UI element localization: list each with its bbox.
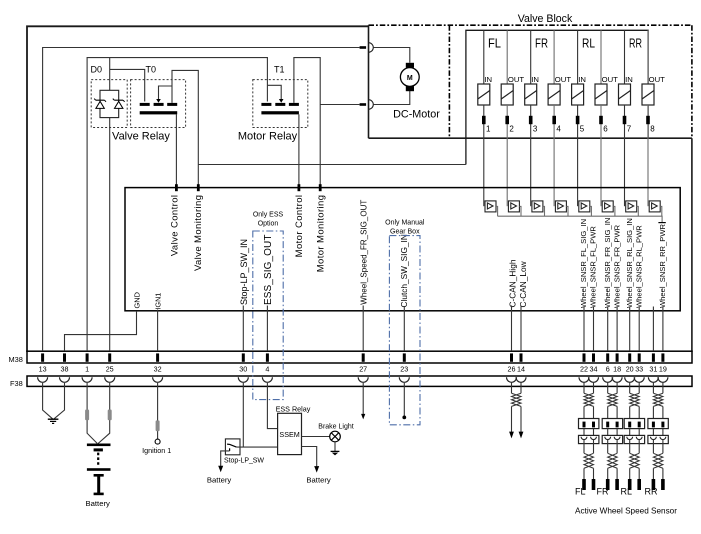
svg-text:IN: IN [531, 75, 539, 84]
suppressor diode block D0 (dashed box) [91, 80, 127, 128]
svg-text:Ignition 1: Ignition 1 [142, 446, 171, 455]
svg-text:Brake Light: Brake Light [318, 424, 353, 431]
svg-text:8: 8 [650, 125, 655, 134]
wire T0 coil to valve control (ECU) [175, 114, 177, 187]
svg-text:Wheel_SNSR_FL_PWR: Wheel_SNSR_FL_PWR [589, 226, 598, 308]
twisted pair RR lower [653, 453, 663, 468]
svg-text:20: 20 [626, 365, 634, 374]
wire T0 right contact / valve monitoring riser [172, 70, 198, 187]
twisted pair RL lower [630, 453, 640, 468]
pin 1 (M38 tick, number, F38 socket) [82, 353, 92, 382]
svg-text:Only Manual: Only Manual [385, 219, 425, 226]
svg-text:38: 38 [61, 365, 69, 374]
driver U8 (valve output stage) [649, 201, 662, 216]
terminal circle Ignition 1 [155, 439, 160, 444]
wire pin13 net: M38 up, across, to motor top terminal [43, 48, 360, 352]
connector tick into motor (top terminal) [360, 46, 367, 49]
valve V2 (OUT) with wire, tick and pin number 2 [501, 30, 524, 206]
wire T0 movable contact to monitoring riser [159, 86, 173, 99]
svg-text:26: 26 [508, 365, 516, 374]
wire lamp to ground [334, 442, 336, 452]
wire column x=584.0 to M38 [583, 307, 585, 352]
svg-text:31: 31 [649, 365, 657, 374]
wire frame left+top (battery feed loop) [27, 26, 369, 352]
driver U5 (valve output stage) [579, 201, 592, 216]
twisted pair FR lower [608, 453, 618, 468]
svg-text:FL: FL [575, 487, 586, 497]
svg-text:6: 6 [603, 125, 608, 134]
svg-text:RL: RL [582, 36, 595, 51]
connector arc motor bottom terminal [369, 100, 374, 110]
pin 13 (M38 tick, number, F38 socket) [38, 353, 48, 382]
svg-text:1: 1 [85, 365, 89, 374]
connector plug RR (male) [648, 419, 668, 429]
wire column x=521.0 to M38 [520, 306, 522, 352]
wire T1 movable contact to left riser [267, 85, 281, 99]
ground G1 [48, 419, 59, 423]
wire RL to lower twist [630, 439, 640, 453]
DC motor M1 [400, 63, 419, 91]
wire motor bottom terminal to monitoring riser [320, 104, 359, 106]
svg-text:OUT: OUT [555, 75, 572, 84]
relay T0 (dashed box) [131, 80, 186, 128]
switch Stop-LP_SW [225, 439, 240, 455]
twisted pair FL lower [584, 453, 594, 468]
valve V3 (IN) with wire, tick and pin number 3 [525, 30, 539, 206]
arrow pin27 [361, 414, 365, 420]
driver U6 (valve output stage) [602, 201, 615, 216]
arrow C-CAN Low [519, 432, 524, 439]
valve block dash-dot right edge [691, 25, 693, 138]
sensor harness FR: wires from F38 [608, 382, 617, 393]
wire column x=617.1 to M38 [616, 307, 618, 352]
valve V8 (OUT) with wire, tick and pin number 8 [642, 30, 665, 206]
svg-text:RL: RL [621, 487, 633, 497]
svg-text:T0: T0 [146, 65, 157, 75]
svg-text:GND: GND [133, 292, 142, 308]
pin 20 (M38 tick, number, F38 socket) [625, 353, 635, 382]
wire column x=662.9 to M38 [662, 307, 664, 352]
wire pin13 to ground [43, 383, 53, 419]
pin 22 (M38 tick, number, F38 socket) [579, 353, 589, 382]
svg-text:7: 7 [627, 125, 632, 134]
svg-text:OUT: OUT [602, 75, 619, 84]
relay T0 contacts [140, 99, 178, 106]
svg-text:Wheel_SNSR_RR_PWR: Wheel_SNSR_RR_PWR [658, 224, 667, 308]
wire column x=157.6 to M38 [157, 310, 159, 352]
svg-text:2: 2 [509, 125, 514, 134]
svg-text:D0: D0 [91, 65, 103, 75]
valve V4 (OUT) with wire, tick and pin number 4 [548, 30, 571, 206]
svg-text:Valve Control: Valve Control [169, 195, 180, 257]
svg-text:Motor Control: Motor Control [294, 195, 305, 258]
zener diode D0a [94, 99, 106, 109]
pin tick at ECU top x=320.2 [319, 184, 322, 191]
svg-text:22: 22 [580, 365, 588, 374]
svg-text:IGN1: IGN1 [154, 293, 163, 310]
twisted pair RR upper [653, 393, 663, 406]
svg-text:IN: IN [625, 75, 633, 84]
twisted pair FR upper [608, 393, 618, 406]
driver U4 (valve output stage) [555, 201, 568, 216]
svg-text:RR: RR [629, 36, 642, 51]
valve block bottom edge [369, 137, 692, 139]
pin 4 (M38 tick, number, F38 socket) [262, 353, 272, 382]
relay T1 coil bar [261, 111, 299, 114]
svg-text:ESS Relay: ESS Relay [276, 404, 311, 413]
pin 19 (M38 tick, number, F38 socket) [658, 353, 668, 382]
valve block inner box [466, 30, 648, 164]
svg-text:Wheel_SNSR_FR_SIG_IN: Wheel_SNSR_FR_SIG_IN [603, 218, 612, 308]
wire RR to lower twist [653, 439, 663, 453]
connector arc motor top terminal [369, 43, 374, 53]
svg-text:34: 34 [590, 365, 598, 374]
sensor terminal bars FL [582, 479, 595, 490]
pin tick at ECU top x=298.9 [298, 184, 301, 191]
bus termination tick [658, 222, 665, 224]
svg-text:Clutch_SW_SIG_IN: Clutch_SW_SIG_IN [399, 234, 409, 307]
motor compartment solid left edge [368, 25, 370, 138]
svg-text:Battery: Battery [306, 475, 331, 484]
svg-text:13: 13 [39, 365, 47, 374]
wire column x=511.5 to M38 [511, 306, 513, 352]
wire column x=653.4 to M38 [652, 307, 654, 352]
pin 27 (M38 tick, number, F38 socket) [358, 353, 368, 382]
option box Only ESS Option (blue dash-dot) [253, 212, 284, 400]
svg-text:23: 23 [400, 365, 408, 374]
svg-text:OUT: OUT [649, 75, 666, 84]
sensor harness FL: wires from F38 [584, 382, 594, 393]
wire D0 junction to T0 left contact [110, 69, 145, 101]
zener diode D0b [113, 99, 125, 109]
connector M38 bar [9, 351, 693, 364]
wire GND to pin 38 [65, 311, 137, 351]
wire RL to sensor terminals [630, 468, 640, 479]
wire motor top terminal to brush [373, 48, 409, 63]
driver U2 (valve output stage) [508, 201, 521, 216]
svg-text:DC-Motor: DC-Motor [393, 109, 440, 121]
svg-text:Wheel_SNSR_RL_PWR: Wheel_SNSR_RL_PWR [634, 225, 643, 308]
svg-text:OUT: OUT [508, 75, 525, 84]
sensor terminal bars FR [606, 479, 619, 490]
pin 23 (M38 tick, number, F38 socket) [399, 353, 409, 382]
svg-text:25: 25 [106, 365, 114, 374]
wire pin38 to ground [54, 383, 65, 419]
wire pin1 to battery [87, 383, 97, 444]
svg-text:Battery: Battery [86, 499, 111, 508]
wire column x=629.7 to M38 [629, 307, 631, 352]
fuse F1 [85, 410, 89, 421]
connector socket RL (female) [624, 435, 644, 443]
dash-dot divider motor/valves [448, 25, 450, 138]
pin 30 (M38 tick, number, F38 socket) [238, 353, 248, 382]
connector plug FL (male) [579, 419, 599, 429]
ground (brake light) [331, 451, 340, 455]
valve V5 (IN) with wire, tick and pin number 5 [572, 30, 586, 206]
wire column x=607.7 to M38 [607, 307, 609, 352]
svg-text:Wheel_SNSR_FL_SIG_IN: Wheel_SNSR_FL_SIG_IN [579, 219, 588, 308]
valve V6 (OUT) with wire, tick and pin number 6 [595, 30, 618, 206]
wire C-CAN pair from F38 [512, 382, 522, 393]
arrow to battery (left) [218, 466, 223, 473]
wire column x=404.3 to M38 [403, 307, 405, 351]
relay module SSEM [278, 413, 302, 454]
wire switch to SSEM [236, 446, 277, 448]
svg-text:27: 27 [359, 365, 367, 374]
wire FL to lower twist [584, 439, 594, 453]
pin 25 (M38 tick, number, F38 socket) [105, 353, 115, 382]
svg-text:1: 1 [486, 125, 491, 134]
wire column x=593.5 to M38 [593, 307, 595, 352]
ECU main box [125, 188, 680, 311]
valve block outer dash-dot border top [369, 24, 692, 26]
wire switch to battery arrow (left) [221, 451, 230, 467]
svg-text:Wheel_Speed_FR_SIG_OUT: Wheel_Speed_FR_SIG_OUT [360, 200, 369, 305]
svg-text:Gear Box: Gear Box [390, 229, 420, 236]
svg-text:14: 14 [517, 365, 525, 374]
svg-text:Motor Monitoring: Motor Monitoring [316, 195, 327, 273]
connector plug RL (male) [624, 419, 644, 429]
svg-text:M: M [407, 75, 413, 82]
pin 33 (M38 tick, number, F38 socket) [634, 353, 644, 382]
svg-text:IN: IN [484, 75, 492, 84]
arrow to battery (right) [314, 466, 319, 473]
wire stubs between connectors FR [608, 429, 617, 436]
connector socket FR (female) [602, 435, 622, 443]
svg-text:Valve Relay: Valve Relay [112, 131, 170, 143]
svg-text:5: 5 [580, 125, 585, 134]
driver U3 (valve output stage) [532, 201, 545, 216]
wire column x=243.3 to M38 [242, 306, 244, 352]
pin 38 (M38 tick, number, F38 socket) [60, 353, 70, 382]
wire stubs between connectors FL [584, 429, 594, 436]
svg-text:Wheel_SNSR_RL_SIG_IN: Wheel_SNSR_RL_SIG_IN [625, 218, 634, 308]
svg-text:6: 6 [606, 365, 610, 374]
wire pin4 down to SSEM [267, 383, 277, 429]
svg-text:Option: Option [258, 221, 279, 228]
wire SSEM to battery arrow (right) [302, 447, 317, 467]
svg-text:4: 4 [556, 125, 561, 134]
connector socket RR (female) [648, 435, 668, 443]
svg-text:Stop-LP_SW_IN: Stop-LP_SW_IN [239, 239, 249, 305]
lamp Brake Light [330, 431, 341, 442]
wire column x=363.2 to M38 [362, 306, 364, 352]
sensor harness RL: wires from F38 [630, 382, 640, 393]
wire FR to lower twist [608, 439, 617, 453]
wire motor bottom terminal to brush [373, 91, 409, 105]
valve V1 (IN) with wire, tick and pin number 1 [478, 30, 492, 206]
svg-text:IN: IN [578, 75, 586, 84]
terminal dot clutch switch [402, 416, 406, 420]
wire pin30 down to switch node [242, 383, 244, 447]
svg-text:Motor Relay: Motor Relay [238, 131, 298, 143]
pin 18 (M38 tick, number, F38 socket) [612, 353, 622, 382]
wire pin32 ignition [157, 383, 159, 439]
driver U1 (valve output stage) [485, 201, 498, 216]
svg-text:ESS_SIG_OUT: ESS_SIG_OUT [263, 234, 274, 305]
wire pin25 to battery [98, 383, 110, 444]
pin tick at ECU top x=176.4 [175, 184, 178, 191]
svg-text:18: 18 [613, 365, 621, 374]
svg-text:FR: FR [597, 487, 609, 497]
svg-text:Stop-LP_SW: Stop-LP_SW [224, 458, 264, 465]
wire RR to connector [653, 406, 663, 418]
svg-text:Active Wheel Speed Sensor: Active Wheel Speed Sensor [575, 507, 677, 516]
wire C-CAN down to arrows [512, 406, 522, 432]
connector F38 bar [10, 376, 692, 388]
svg-text:30: 30 [239, 365, 247, 374]
wire driver output bus [498, 216, 662, 222]
wire pin27 wheel speed out stub [362, 383, 364, 415]
wire RL to connector [630, 406, 640, 418]
battery B1 [87, 444, 111, 496]
twisted pair FL upper [584, 393, 594, 406]
wire frame right edge [691, 138, 693, 352]
svg-text:SSEM: SSEM [279, 430, 299, 439]
twisted pair RL upper [630, 393, 640, 406]
wire T1 coil to motor control (ECU) [298, 114, 300, 187]
wire pin25/D0 net: vertical through D0 down to M38 [109, 58, 111, 351]
relay T0 coil bar [140, 111, 178, 114]
svg-text:T1: T1 [274, 65, 285, 75]
wire FR to sensor terminals [608, 468, 617, 479]
pin 14 (M38 tick, number, F38 socket) [516, 353, 526, 382]
fuse F2 [108, 410, 112, 421]
wire FL to sensor terminals [584, 468, 594, 479]
driver U7 (valve output stage) [626, 201, 639, 216]
svg-text:3: 3 [533, 125, 538, 134]
wire column x=639.2 to M38 [638, 307, 640, 352]
wire pin1 net: M38 up, across to T1 left contact riser [87, 58, 267, 351]
option box Only Manual Gear Box (blue dash-dot) [385, 219, 425, 424]
wire valve relay output feed to valve block [198, 164, 466, 166]
wire pin23 clutch stub [403, 383, 405, 416]
twisted pair C-CAN [512, 393, 522, 406]
sensor terminal bars RR [652, 479, 665, 490]
connector socket FL (female) [579, 435, 599, 443]
pin 26 (M38 tick, number, F38 socket) [507, 353, 517, 382]
diode pair rectangle (D0 internals) [100, 90, 119, 117]
svg-text:C-CAN_Low: C-CAN_Low [518, 260, 528, 307]
svg-text:FR: FR [535, 36, 548, 51]
wire SSEM to brake light [302, 436, 330, 438]
valve V7 (IN) with wire, tick and pin number 7 [619, 30, 633, 206]
svg-text:32: 32 [154, 365, 162, 374]
pin 34 (M38 tick, number, F38 socket) [589, 353, 599, 382]
wire FR to connector [608, 406, 617, 418]
sensor harness RR: wires from F38 [653, 382, 663, 393]
svg-text:F38: F38 [10, 379, 23, 388]
svg-text:Valve Monitoring: Valve Monitoring [193, 195, 204, 271]
svg-text:Wheel_SNSR_FR_PWR: Wheel_SNSR_FR_PWR [612, 224, 621, 308]
wire stubs between connectors RL [630, 429, 640, 436]
svg-text:4: 4 [265, 365, 269, 374]
arrow C-CAN High [509, 432, 514, 439]
sensor terminal bars RL [628, 479, 641, 490]
svg-text:Battery: Battery [207, 475, 232, 484]
svg-text:RR: RR [645, 487, 658, 497]
svg-text:Valve Block: Valve Block [518, 13, 573, 25]
svg-text:FL: FL [488, 36, 501, 51]
svg-text:C-CAN_High: C-CAN_High [508, 259, 518, 307]
wire T1 right contact / motor monitoring riser [294, 58, 320, 188]
svg-text:19: 19 [659, 365, 667, 374]
fuse F3 [156, 420, 160, 431]
wire FL to connector [584, 406, 594, 418]
relay T1 contacts [261, 99, 299, 106]
svg-text:M38: M38 [9, 355, 23, 364]
connector tick into motor (bottom terminal) [360, 103, 367, 106]
pin 31 (M38 tick, number, F38 socket) [648, 353, 658, 382]
pin 32 (M38 tick, number, F38 socket) [153, 353, 163, 382]
wire column x=267.4 to M38 [266, 306, 268, 352]
connector plug FR (male) [602, 419, 622, 429]
pin tick at ECU top x=198.3 [197, 184, 200, 191]
relay T1 (dashed box) [253, 80, 308, 128]
wire stubs between connectors RR [653, 429, 663, 436]
wire RR to sensor terminals [653, 468, 663, 479]
svg-text:33: 33 [635, 365, 643, 374]
svg-text:Only ESS: Only ESS [253, 212, 284, 219]
pin 6 (M38 tick, number, F38 socket) [603, 353, 613, 382]
